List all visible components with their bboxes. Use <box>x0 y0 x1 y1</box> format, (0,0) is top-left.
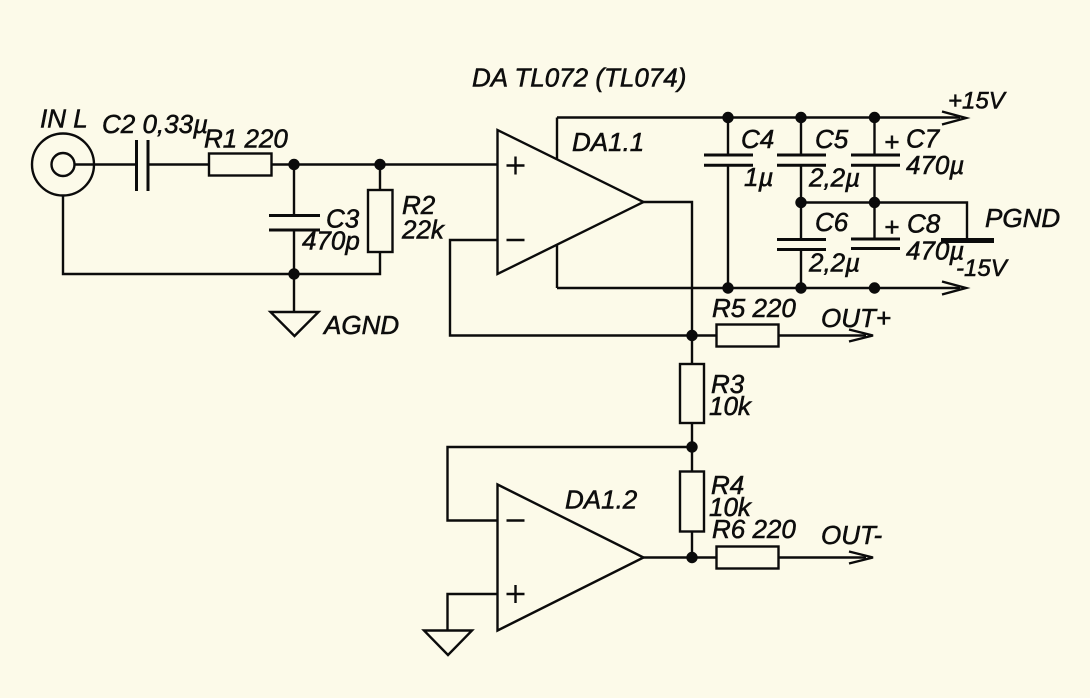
svg-text:C2 0,33µ: C2 0,33µ <box>102 109 208 139</box>
junction node ground rail <box>288 268 299 279</box>
junction -15V/C8 <box>869 282 880 293</box>
junction node DA1.2 output <box>686 552 697 563</box>
junction mid rail C7/C8 <box>869 197 880 208</box>
wire connector to C2 <box>74 163 136 165</box>
svg-text:2,2µ: 2,2µ <box>808 248 860 278</box>
junction -15V/C6 <box>795 282 806 293</box>
svg-text:IN L: IN L <box>40 104 88 134</box>
ground AGND <box>271 312 319 336</box>
wire node to DA1.2 inverting input <box>448 447 693 521</box>
svg-text:C6: C6 <box>815 207 849 237</box>
wire AGND stem <box>293 274 295 312</box>
wire C3 bottom <box>293 231 295 275</box>
junction node OUT+ feedback <box>686 330 697 341</box>
pin plus DA1.2 <box>507 585 525 603</box>
pin minus DA1.2 <box>507 519 525 521</box>
wire R6 to OUT- <box>779 556 867 558</box>
pin plus DA1.1 <box>507 157 525 175</box>
wire R1 to op-amp U1 noninverting input <box>272 163 498 165</box>
ground DA1.2 <box>424 631 472 656</box>
junction node R3/R4 <box>686 441 697 452</box>
svg-text:470µ: 470µ <box>906 150 964 180</box>
op-amp DA1.1 <box>498 130 644 274</box>
resistor R5 <box>717 325 779 347</box>
resistor R6 <box>717 547 779 569</box>
svg-text:R5 220: R5 220 <box>712 293 796 323</box>
svg-text:+: + <box>884 212 899 242</box>
wire V+ stub DA1.1 <box>556 118 558 160</box>
capacitor C7 <box>851 155 900 165</box>
svg-text:1µ: 1µ <box>744 162 773 192</box>
wire C6 bottom <box>800 250 802 288</box>
junction +15V/C5 <box>795 112 806 123</box>
svg-text:OUT+: OUT+ <box>821 303 891 333</box>
wire DA1.2 output <box>644 556 717 558</box>
svg-text:OUT-: OUT- <box>821 520 882 550</box>
wire C4 top <box>727 118 729 155</box>
resistor R2 <box>368 190 393 252</box>
svg-text:470p: 470p <box>302 226 360 256</box>
svg-text:2,2µ: 2,2µ <box>808 163 860 193</box>
svg-text:C5: C5 <box>815 124 849 154</box>
svg-text:R6 220: R6 220 <box>712 514 796 544</box>
wire DA1.2 noninverting to ground <box>448 594 498 631</box>
junction -15V/C4 <box>722 282 733 293</box>
wire +15V rail <box>557 116 960 118</box>
wire R3 top <box>691 336 693 365</box>
wire node to R5 <box>692 334 716 336</box>
connector IN L <box>32 134 94 196</box>
wire C2 to R1 <box>148 163 209 165</box>
junction node input/R2 <box>374 159 385 170</box>
junction +15V/C4 <box>722 112 733 123</box>
ground PGND bar <box>941 238 994 243</box>
wire R3 bottom <box>691 423 693 447</box>
svg-text:C7: C7 <box>906 124 941 154</box>
svg-text:PGND: PGND <box>985 203 1060 233</box>
wire DA1.1 feedback <box>450 240 692 336</box>
pin minus DA1.1 <box>507 239 525 241</box>
svg-text:DA1.1: DA1.1 <box>572 127 644 157</box>
svg-text:DA1.2: DA1.2 <box>565 485 638 515</box>
svg-text:AGND: AGND <box>322 310 399 340</box>
svg-text:C4: C4 <box>741 124 774 154</box>
wire R4 top <box>691 447 693 472</box>
junction +15V/C7 <box>869 112 880 123</box>
wire mid rail to PGND <box>801 203 967 239</box>
wire V- stub DA1.1 <box>556 245 558 289</box>
resistor R4 <box>680 472 704 532</box>
wire C7 to C8 <box>873 166 875 239</box>
svg-text:+: + <box>884 127 899 157</box>
capacitor C2 <box>137 140 149 191</box>
wire C5 to C6 <box>800 166 802 240</box>
capacitor C6 <box>777 240 826 250</box>
wire R2 top <box>379 165 381 191</box>
arrow OUT- <box>849 552 873 564</box>
wire DA1.1 output <box>644 202 693 336</box>
capacitor C4 <box>704 155 753 165</box>
svg-text:10k: 10k <box>709 391 753 421</box>
wire R2 bottom <box>294 252 380 274</box>
capacitor C8 <box>851 239 900 249</box>
junction node input/C3 <box>288 159 299 170</box>
arrow OUT+ <box>849 330 873 342</box>
wire connector bottom to ground rail <box>63 196 294 275</box>
wire C7 top <box>873 118 875 155</box>
wire C4 bottom <box>727 166 729 289</box>
wire -15V rail <box>557 287 960 289</box>
capacitor C5 <box>777 155 826 165</box>
svg-text:C8: C8 <box>907 209 941 239</box>
wire C3 top <box>293 165 295 216</box>
svg-text:22k: 22k <box>401 215 446 245</box>
capacitor C3 <box>269 216 320 231</box>
wire R5 to OUT+ <box>779 334 867 336</box>
op-amp DA1.2 <box>498 485 644 631</box>
wire R4 bottom <box>691 532 693 558</box>
svg-text:DA TL072 (TL074): DA TL072 (TL074) <box>472 63 686 93</box>
resistor R1 <box>209 154 272 176</box>
arrow +15V <box>942 112 966 125</box>
svg-text:+15V: +15V <box>948 88 1007 115</box>
junction mid rail C5/C6 <box>795 197 806 208</box>
svg-text:R1 220: R1 220 <box>204 124 288 154</box>
resistor R3 <box>680 364 704 423</box>
wire C5 top <box>800 118 802 155</box>
arrow -15V <box>942 282 966 295</box>
